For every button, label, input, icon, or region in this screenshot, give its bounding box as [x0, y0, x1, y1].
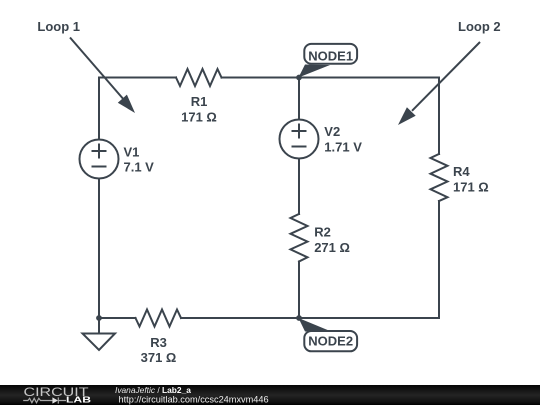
- wire R1 to top-right corner: [222, 77, 440, 79]
- resistor R2: [291, 214, 308, 262]
- resistor R4: [431, 154, 448, 201]
- svg-text:NODE1: NODE1: [308, 49, 353, 64]
- ground stub wire: [98, 318, 100, 334]
- wire R3 to bottom-right corner: [181, 317, 439, 319]
- svg-text:Loop 2: Loop 2: [458, 19, 501, 34]
- svg-text:LAB: LAB: [66, 396, 91, 405]
- svg-text:R4: R4: [453, 164, 470, 179]
- svg-text:7.1 V: 7.1 V: [124, 160, 155, 175]
- wire middle branch upper: [298, 78, 300, 120]
- svg-text:IvanaJeftic / Lab2_a: IvanaJeftic / Lab2_a: [115, 385, 191, 395]
- svg-text:271 Ω: 271 Ω: [314, 240, 350, 255]
- node dot bottom-left junction: [96, 315, 102, 321]
- wire R2 to NODE2: [298, 262, 300, 319]
- svg-text:NODE2: NODE2: [308, 334, 353, 349]
- footer logo diode: [52, 397, 58, 403]
- svg-text:V1: V1: [124, 145, 140, 160]
- footer logo resistor squiggle: [23, 398, 52, 402]
- node dot NODE1 junction: [296, 75, 302, 81]
- node NODE1 flag tail: [299, 65, 331, 78]
- resistor R3: [136, 310, 182, 327]
- svg-text:http://circuitlab.com/ccsc24mx: http://circuitlab.com/ccsc24mxvm446: [119, 394, 269, 404]
- node dot NODE2 junction: [296, 315, 302, 321]
- resistor R1: [176, 69, 222, 86]
- svg-text:Loop 1: Loop 1: [37, 19, 80, 34]
- node NODE2 flag box: [304, 331, 357, 351]
- svg-text:371 Ω: 371 Ω: [141, 350, 177, 365]
- wire top-left to R1: [99, 77, 176, 79]
- wire left branch upper: [98, 78, 100, 140]
- node NODE2 flag tail: [299, 318, 331, 332]
- wire V2 to R2: [298, 159, 300, 215]
- loop 1 arrow: [70, 38, 135, 114]
- svg-text:1.71 V: 1.71 V: [324, 140, 362, 155]
- wire right branch upper: [438, 78, 440, 155]
- wire right branch lower: [438, 201, 440, 318]
- svg-text:R1: R1: [191, 94, 208, 109]
- voltage source V2: [280, 120, 319, 159]
- svg-text:V2: V2: [324, 124, 340, 139]
- ground: [83, 334, 116, 351]
- svg-text:R2: R2: [314, 225, 331, 240]
- svg-text:171 Ω: 171 Ω: [181, 110, 217, 125]
- wire left branch lower: [98, 179, 100, 319]
- loop 2 arrow: [398, 42, 480, 125]
- voltage source V1: [80, 140, 119, 179]
- svg-text:171 Ω: 171 Ω: [453, 179, 489, 194]
- wire bottom-left to R3: [99, 317, 136, 319]
- svg-text:R3: R3: [150, 335, 167, 350]
- node NODE1 flag box: [304, 44, 357, 64]
